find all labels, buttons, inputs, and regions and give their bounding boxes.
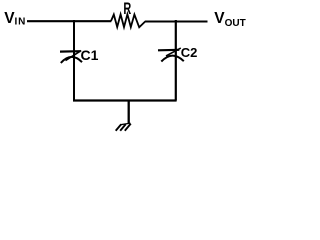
- wire top right (resistor to VOUT): [145, 20, 208, 22]
- capacitor C2 slash: [166, 48, 181, 56]
- wire bottom rail: [73, 99, 177, 101]
- capacitor C1 top plate: [60, 50, 80, 53]
- resistor R: [111, 14, 145, 27]
- ground stem wire: [128, 100, 130, 123]
- svg-text:C2: C2: [181, 45, 198, 60]
- capacitor C1 slash: [66, 51, 82, 61]
- svg-text:C1: C1: [81, 47, 99, 63]
- capacitor C2 curved plate: [161, 56, 184, 62]
- svg-text:R: R: [123, 0, 131, 18]
- svg-text:VOUT: VOUT: [214, 10, 245, 29]
- wire top left (VIN to resistor): [27, 20, 111, 22]
- wire C2 vertical: [175, 20, 177, 101]
- svg-text:VIN: VIN: [4, 10, 26, 28]
- ground symbol: [116, 123, 131, 131]
- capacitor C1 curved plate: [61, 57, 82, 63]
- wire C1 vertical: [73, 20, 75, 101]
- capacitor C2 top plate: [158, 49, 179, 52]
